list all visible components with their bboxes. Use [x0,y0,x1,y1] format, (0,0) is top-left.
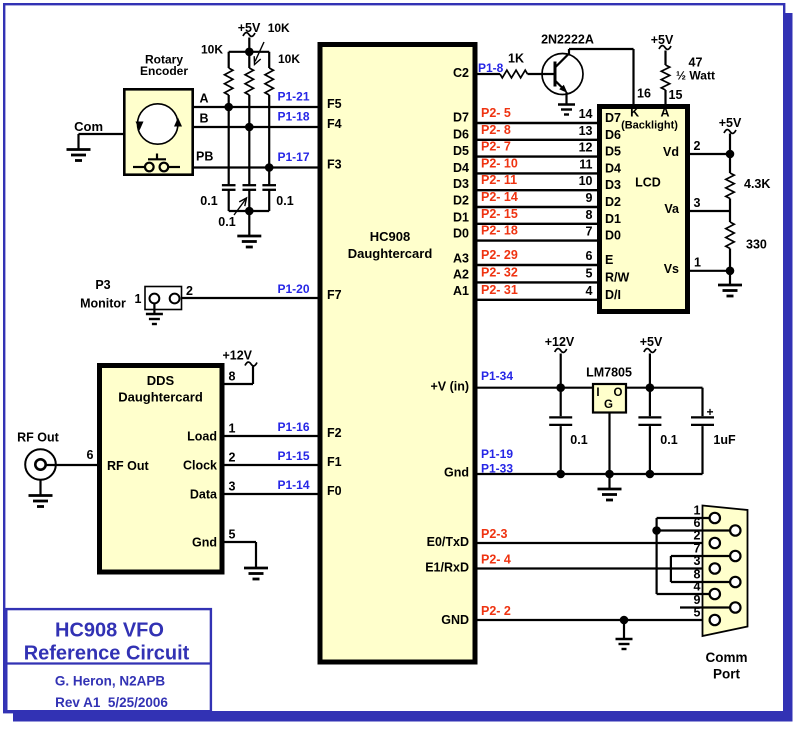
svg-text:RF Out: RF Out [107,459,149,473]
svg-text:Gnd: Gnd [444,466,469,480]
svg-text:P2- 32: P2- 32 [481,265,518,279]
svg-text:Daughtercard: Daughtercard [348,246,433,261]
svg-text:5: 5 [694,606,701,620]
svg-text:RF Out: RF Out [17,431,59,445]
svg-text:10K: 10K [201,43,223,57]
svg-text:+V (in): +V (in) [430,380,469,394]
svg-text:3: 3 [229,480,236,494]
svg-text:11: 11 [579,157,592,171]
svg-text:A1: A1 [453,284,469,298]
svg-text:P1-34: P1-34 [481,369,513,383]
svg-text:K: K [630,106,639,120]
svg-text:D5: D5 [605,145,621,159]
svg-text:Reference Circuit: Reference Circuit [24,643,190,665]
svg-text:10K: 10K [278,52,300,66]
svg-text:C2: C2 [453,66,469,80]
svg-text:I: I [596,387,599,399]
svg-text:2: 2 [694,139,701,153]
svg-text:Va: Va [664,202,680,216]
svg-text:5: 5 [229,528,236,542]
svg-text:8: 8 [229,370,236,384]
svg-text:Encoder: Encoder [140,64,188,78]
svg-text:D0: D0 [605,229,621,243]
svg-text:D4: D4 [453,161,469,175]
svg-text:Rev A1 5/25/2006: Rev A1 5/25/2006 [55,695,168,710]
svg-text:P2- 5: P2- 5 [481,106,511,120]
svg-text:P1-16: P1-16 [277,420,309,434]
svg-text:1uF: 1uF [713,433,736,447]
svg-text:7: 7 [694,542,701,556]
svg-text:0.1: 0.1 [276,194,293,208]
svg-text:D0: D0 [453,227,469,241]
svg-text:1: 1 [135,292,142,306]
svg-text:+5V: +5V [238,21,261,35]
svg-text:6: 6 [694,516,701,530]
svg-text:Clock: Clock [183,459,217,473]
svg-text:7: 7 [586,225,593,239]
svg-text:+12V: +12V [545,335,575,349]
svg-text:G. Heron, N2APB: G. Heron, N2APB [55,674,166,689]
svg-text:DDS: DDS [147,373,175,388]
svg-text:15: 15 [669,88,683,102]
svg-text:GND: GND [441,613,469,627]
svg-text:330: 330 [746,238,767,252]
svg-text:+5V: +5V [640,335,663,349]
svg-text:Vd: Vd [663,145,679,159]
svg-text:0.1: 0.1 [660,433,677,447]
svg-text:(Backlight): (Backlight) [621,120,678,132]
svg-text:Load: Load [187,430,217,444]
svg-text:12: 12 [579,141,593,155]
svg-text:P2- 11: P2- 11 [481,173,517,187]
svg-text:D4: D4 [605,161,621,175]
svg-text:D2: D2 [453,194,469,208]
svg-text:HC908 VFO: HC908 VFO [55,620,164,642]
svg-text:A3: A3 [453,252,469,266]
svg-text:P2- 2: P2- 2 [481,604,511,618]
svg-text:HC908: HC908 [370,229,410,244]
svg-text:O: O [614,387,623,399]
svg-text:P2- 29: P2- 29 [481,248,518,262]
svg-text:P1-19: P1-19 [481,447,513,461]
svg-text:E: E [605,253,613,267]
svg-text:D3: D3 [453,177,469,191]
svg-text:F4: F4 [327,117,342,131]
svg-text:B: B [200,112,209,126]
svg-text:P2- 15: P2- 15 [481,207,518,221]
svg-text:14: 14 [579,107,593,121]
svg-text:D1: D1 [453,210,469,224]
svg-text:P2-3: P2-3 [481,527,507,541]
svg-text:P2- 31: P2- 31 [481,283,518,297]
svg-text:D1: D1 [605,212,621,226]
svg-text:47: 47 [689,56,703,70]
svg-text:10K: 10K [268,21,290,35]
svg-text:+5V: +5V [719,116,742,130]
svg-text:+12V: +12V [222,349,252,363]
svg-text:13: 13 [579,124,593,138]
svg-text:2: 2 [229,451,236,465]
svg-text:Gnd: Gnd [192,536,217,550]
svg-text:D6: D6 [453,127,469,141]
svg-text:9: 9 [694,593,701,607]
svg-text:Monitor: Monitor [80,297,126,311]
svg-text:P2- 8: P2- 8 [481,123,511,137]
svg-text:P1-15: P1-15 [277,449,309,463]
svg-text:P1-18: P1-18 [277,110,309,124]
svg-text:1: 1 [229,422,236,436]
svg-text:1K: 1K [508,52,524,66]
svg-text:D5: D5 [453,144,469,158]
svg-text:P2- 4: P2- 4 [481,553,511,567]
svg-text:F2: F2 [327,426,342,440]
svg-text:4.3K: 4.3K [744,177,770,191]
svg-text:P1-33: P1-33 [481,462,513,476]
svg-text:0.1: 0.1 [218,215,235,229]
svg-text:D/I: D/I [605,288,621,302]
svg-text:P1-21: P1-21 [277,90,309,104]
svg-text:0.1: 0.1 [200,194,217,208]
svg-text:Data: Data [190,488,218,502]
svg-text:Comm: Comm [705,650,747,665]
svg-text:+: + [707,405,714,419]
svg-text:PB: PB [196,150,213,164]
svg-text:F0: F0 [327,484,342,498]
svg-text:4: 4 [586,284,593,298]
svg-text:P2- 7: P2- 7 [481,140,511,154]
svg-text:16: 16 [637,87,651,101]
svg-text:A: A [200,92,209,106]
svg-text:P2- 10: P2- 10 [481,156,518,170]
svg-text:A: A [660,106,669,120]
svg-text:0.1: 0.1 [570,433,587,447]
svg-text:D7: D7 [605,111,621,125]
svg-text:LM7805: LM7805 [586,366,632,380]
svg-text:E1/RxD: E1/RxD [425,561,469,575]
svg-text:R/W: R/W [605,270,630,284]
svg-text:Port: Port [713,667,741,682]
svg-text:5: 5 [586,266,593,280]
svg-text:2: 2 [694,529,701,543]
svg-text:8: 8 [694,568,701,582]
svg-text:D2: D2 [605,195,621,209]
svg-text:Vs: Vs [664,262,679,276]
svg-text:9: 9 [586,191,593,205]
svg-text:6: 6 [586,249,593,263]
svg-text:1: 1 [694,256,701,270]
svg-text:3: 3 [694,554,701,568]
svg-text:4: 4 [694,580,701,594]
svg-text:P1-8: P1-8 [478,61,504,75]
svg-text:LCD: LCD [635,176,661,190]
svg-text:2N2222A: 2N2222A [541,33,594,47]
svg-text:½ Watt: ½ Watt [676,69,715,83]
svg-text:P1-14: P1-14 [277,478,309,492]
svg-text:F1: F1 [327,455,342,469]
svg-text:6: 6 [87,448,94,462]
svg-text:F7: F7 [327,288,342,302]
svg-text:P1-17: P1-17 [277,150,309,164]
svg-text:D3: D3 [605,178,621,192]
svg-text:2: 2 [186,284,193,298]
svg-text:F5: F5 [327,97,342,111]
svg-text:A2: A2 [453,267,469,281]
svg-text:10: 10 [579,174,593,188]
svg-text:P3: P3 [95,278,110,292]
svg-text:Daughtercard: Daughtercard [118,390,203,405]
svg-text:P2- 18: P2- 18 [481,224,518,238]
svg-text:D6: D6 [605,128,621,142]
svg-text:D7: D7 [453,111,469,125]
svg-text:P2- 14: P2- 14 [481,190,518,204]
svg-text:P1-20: P1-20 [277,282,309,296]
svg-text:3: 3 [694,196,701,210]
svg-text:8: 8 [586,208,593,222]
svg-text:E0/TxD: E0/TxD [427,535,469,549]
svg-text:F3: F3 [327,158,342,172]
svg-text:G: G [604,399,613,411]
svg-text:Com: Com [74,119,103,134]
